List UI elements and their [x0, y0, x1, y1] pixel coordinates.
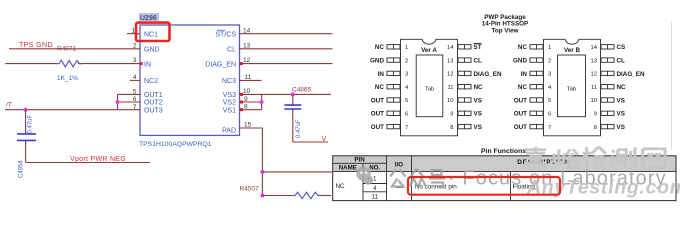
pin 1 stub — [127, 27, 140, 34]
svg-text:4: 4 — [373, 185, 377, 192]
vertical bus joining pins 8-10 — [261, 94, 263, 109]
watermark char 号 — [429, 170, 445, 187]
svg-text:9: 9 — [594, 112, 597, 118]
watermark char 3 of CJK site name — [582, 147, 605, 168]
svg-text:7: 7 — [405, 125, 408, 131]
svg-text:NC2: NC2 — [144, 78, 158, 85]
overline on ST — [217, 29, 225, 31]
svg-text:7: 7 — [548, 125, 551, 131]
svg-text:OUT: OUT — [371, 97, 384, 104]
svg-text:OUT1: OUT1 — [144, 92, 163, 99]
table data text — [336, 176, 536, 201]
svg-text:OUT: OUT — [514, 124, 527, 131]
svg-text:GND: GND — [144, 47, 160, 54]
junction dot — [260, 194, 264, 198]
svg-text:NC: NC — [474, 84, 484, 91]
resistor R4071 zigzag — [56, 60, 82, 66]
svg-text:OUT: OUT — [514, 97, 527, 104]
wire pin 14 — [240, 27, 333, 34]
svg-text:IN: IN — [378, 71, 385, 78]
Ver B pin numbers — [548, 45, 552, 131]
svg-text:GND: GND — [370, 58, 384, 65]
pin 8 stub — [240, 104, 262, 112]
pin 6 stub — [118, 96, 141, 103]
svg-text:13: 13 — [243, 42, 251, 49]
svg-text:Vport PWR NEG: Vport PWR NEG — [70, 156, 126, 163]
svg-text:OUT3: OUT3 — [144, 107, 163, 114]
Ver B left pin labels — [513, 44, 527, 131]
svg-text:VS1: VS1 — [223, 107, 236, 114]
wire C4865 down to V — [293, 111, 328, 142]
package Ver B body — [544, 39, 601, 136]
wire pin 13 — [240, 42, 333, 49]
svg-text:6: 6 — [548, 112, 551, 118]
Ver B pin leads right — [601, 45, 614, 129]
watermark char 4 of CJK site name — [611, 148, 635, 168]
package Ver A body — [401, 39, 458, 136]
svg-text:12: 12 — [591, 72, 597, 78]
Ver A pin numbers — [405, 45, 409, 131]
pin 10 wire to C4865 — [240, 88, 332, 96]
svg-text:CL: CL — [227, 47, 236, 54]
svg-text:TPS1H100AQPWPRQ1: TPS1H100AQPWPRQ1 — [139, 141, 212, 148]
svg-text:VS: VS — [474, 111, 482, 118]
watermark char 5 of CJK site name — [643, 149, 665, 168]
svg-text:6: 6 — [405, 112, 408, 118]
svg-text:R4507: R4507 — [240, 186, 260, 193]
Ver B pin leads left — [530, 45, 543, 129]
svg-text:2: 2 — [133, 42, 137, 49]
svg-text:3: 3 — [548, 72, 551, 78]
svg-text:VS: VS — [474, 124, 482, 131]
svg-text:DIAG_EN: DIAG_EN — [617, 71, 645, 78]
svg-text:12: 12 — [447, 72, 453, 78]
wire to pin 3 — [5, 57, 140, 64]
capacitor C4954 — [17, 110, 36, 143]
IC left pin names — [144, 31, 163, 114]
watermark char 公 — [390, 170, 406, 187]
svg-text:I/O: I/O — [395, 161, 403, 168]
svg-text:ST/CS: ST/CS — [215, 31, 236, 38]
wire /T — [5, 109, 118, 111]
pin 5 stub — [118, 88, 141, 95]
op-amp / high-side switch U296 body — [140, 25, 240, 135]
svg-text:5: 5 — [133, 88, 137, 95]
svg-text:Top View: Top View — [491, 27, 518, 34]
svg-text:11: 11 — [447, 85, 453, 91]
svg-text:4: 4 — [133, 74, 137, 81]
svg-text:11: 11 — [591, 85, 597, 91]
watermark logo bubbles — [356, 167, 373, 185]
svg-text:8: 8 — [594, 125, 597, 131]
svg-text:5: 5 — [405, 98, 408, 104]
svg-text:CL: CL — [617, 58, 626, 65]
svg-text:NAME: NAME — [339, 165, 357, 172]
svg-text:NC1: NC1 — [144, 31, 158, 38]
wire PAD down — [261, 128, 263, 196]
svg-text:2: 2 — [405, 58, 408, 64]
red highlight box around pin1/NC1 — [136, 23, 170, 41]
svg-text:7: 7 — [133, 104, 137, 111]
Ver A pin leads left — [387, 45, 400, 129]
svg-text:VS: VS — [617, 111, 625, 118]
junction dot — [260, 100, 264, 104]
Ver B right pin labels — [617, 44, 645, 131]
svg-text:13: 13 — [591, 58, 597, 64]
svg-text:2: 2 — [548, 58, 551, 64]
svg-text:DIAG_EN: DIAG_EN — [474, 71, 502, 78]
svg-text:NC: NC — [336, 183, 346, 190]
svg-text:PIN: PIN — [354, 157, 365, 164]
svg-text:4: 4 — [548, 85, 552, 91]
svg-text:VS2: VS2 — [223, 100, 236, 107]
svg-text:R4071: R4071 — [57, 46, 77, 53]
Ver A right pin labels — [474, 44, 502, 131]
junction dot — [116, 100, 120, 104]
table header text — [339, 157, 570, 172]
package Ver A tab — [416, 55, 443, 117]
wire pin 12 — [240, 57, 333, 65]
svg-text:11: 11 — [245, 74, 252, 81]
svg-text:9: 9 — [450, 112, 453, 118]
svg-text:C4954: C4954 — [19, 160, 25, 178]
watermark char 1 of CJK site name — [524, 147, 547, 169]
svg-text:8: 8 — [244, 104, 248, 111]
svg-text:3: 3 — [133, 57, 137, 64]
svg-text:U296: U296 — [140, 15, 157, 22]
svg-text:/T: /T — [5, 102, 13, 109]
svg-text:IN: IN — [144, 61, 151, 68]
faint page border line — [671, 21, 673, 150]
svg-text:1: 1 — [373, 176, 377, 183]
svg-text:CL: CL — [474, 58, 483, 65]
svg-text:NC: NC — [518, 44, 528, 51]
svg-text:NO.: NO. — [369, 165, 380, 172]
pin 11 stub — [240, 74, 262, 81]
svg-text:10: 10 — [591, 98, 597, 104]
vertical bus joining pins 5-7 — [117, 94, 119, 109]
pin 4 stub — [130, 74, 140, 81]
wire TPS GND to pin 2 — [9, 42, 140, 49]
junction red dot pin3 — [140, 62, 143, 65]
svg-text:C4865: C4865 — [292, 87, 312, 94]
refdes U296 — [139, 13, 159, 22]
junction dot — [260, 170, 264, 174]
svg-text:1: 1 — [548, 45, 551, 51]
svg-text:OUT: OUT — [514, 111, 527, 118]
junction dot at C4954 — [24, 108, 28, 112]
svg-text:8: 8 — [450, 125, 453, 131]
watermark char 2 of CJK site name — [554, 149, 578, 168]
svg-text:VS3: VS3 — [223, 92, 236, 99]
svg-text:Tab: Tab — [425, 87, 434, 93]
svg-text:Pin Functions: Pin Functions — [481, 148, 526, 155]
svg-text:0.47uF: 0.47uF — [296, 119, 302, 138]
resistor R4507 zigzag — [292, 192, 321, 198]
svg-text:14: 14 — [243, 27, 251, 34]
svg-text:14: 14 — [591, 45, 598, 51]
red highlight box around No connect pin / Floating — [408, 177, 560, 195]
wire to table — [262, 171, 332, 173]
svg-text:0.47uF: 0.47uF — [28, 114, 34, 133]
svg-text:Ver B: Ver B — [564, 47, 581, 54]
svg-text:Ver A: Ver A — [421, 47, 437, 54]
svg-text:DIAG_EN: DIAG_EN — [205, 61, 236, 68]
svg-text:TPS GND: TPS GND — [19, 42, 53, 49]
table outer border — [333, 156, 676, 201]
wire C4954 to Vport PWR NEG — [26, 143, 150, 163]
svg-text:NC: NC — [375, 44, 385, 51]
svg-text:V: V — [322, 136, 327, 143]
IC right pin names — [205, 31, 236, 134]
svg-text:1: 1 — [405, 45, 408, 51]
Ver A left pin labels — [370, 44, 384, 131]
svg-text:VS: VS — [617, 124, 625, 131]
svg-text:NC: NC — [518, 84, 528, 91]
svg-text:GND: GND — [513, 58, 527, 65]
svg-text:4: 4 — [405, 85, 409, 91]
pin 9 stub — [240, 96, 262, 104]
svg-text:Tab: Tab — [567, 87, 576, 93]
capacitor C4865 — [284, 94, 301, 111]
svg-text:VS: VS — [617, 97, 625, 104]
watermark char 众 — [410, 169, 426, 187]
svg-text:OUT: OUT — [371, 124, 384, 131]
svg-text:14: 14 — [447, 45, 454, 51]
svg-text:5: 5 — [548, 98, 551, 104]
svg-text:12: 12 — [243, 57, 251, 64]
svg-text:NC3: NC3 — [222, 78, 236, 85]
svg-text:9: 9 — [244, 96, 248, 103]
svg-text:13: 13 — [447, 58, 453, 64]
svg-text:10: 10 — [447, 98, 453, 104]
svg-text:PAD: PAD — [222, 128, 236, 135]
overline ST pin14 VerA — [474, 43, 482, 45]
svg-text:11: 11 — [371, 194, 378, 201]
Ver A pin leads right — [458, 45, 471, 129]
svg-text:IN: IN — [521, 71, 528, 78]
svg-text:NC: NC — [375, 84, 385, 91]
svg-text:15: 15 — [244, 122, 252, 129]
svg-text:10: 10 — [243, 88, 251, 95]
junction dot at C4865 — [291, 92, 295, 96]
pin 7 stub — [118, 104, 141, 111]
title PWP Package — [482, 14, 529, 35]
table header fill — [333, 156, 676, 172]
svg-text:1K_1%: 1K_1% — [57, 75, 78, 82]
package Ver B tab — [558, 55, 586, 117]
svg-text:6: 6 — [133, 96, 137, 103]
table grid lines — [333, 156, 676, 201]
svg-text:ST: ST — [474, 44, 482, 51]
svg-text:OUT2: OUT2 — [144, 100, 163, 107]
svg-text:OUT: OUT — [371, 111, 384, 118]
svg-text:VS: VS — [474, 97, 482, 104]
svg-text:3: 3 — [405, 72, 408, 78]
pin 15 stub PAD — [240, 122, 263, 129]
svg-text:NC: NC — [617, 84, 627, 91]
wire with resistor R4507 — [262, 195, 331, 197]
svg-text:CS: CS — [617, 44, 626, 51]
